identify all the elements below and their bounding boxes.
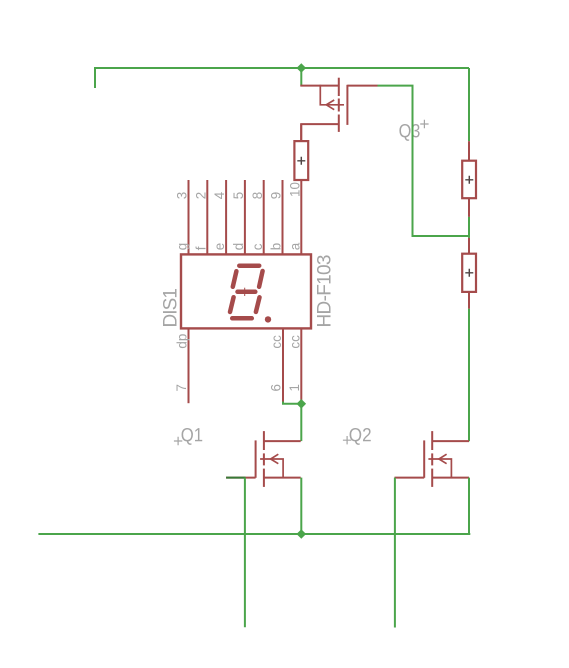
transistor Q2 [395, 431, 470, 487]
wire cc pins to junction [283, 402, 301, 404]
origin cross Q1 [174, 437, 182, 445]
pin 6 wire (cc) [282, 328, 284, 401]
svg-text:a: a [287, 242, 302, 250]
pin 4 wire [225, 180, 227, 254]
wire Q1 gate drop [244, 478, 246, 628]
junction bottom node [297, 529, 307, 539]
svg-text:f: f [193, 246, 208, 250]
svg-text:c: c [250, 243, 265, 250]
wire bottom rail [38, 533, 470, 535]
digit origin tick [244, 288, 246, 296]
svg-text:dp: dp [175, 334, 190, 349]
segment g [238, 290, 256, 295]
svg-text:HD-F103: HD-F103 [315, 255, 336, 328]
pin 1 wire (cc) [300, 328, 302, 402]
wire Q1 source to bottom rail [300, 478, 302, 534]
svg-text:Q2: Q2 [349, 425, 372, 446]
origin cross R3 [465, 269, 473, 277]
resistor R3 (right, lower) [462, 238, 476, 309]
origin cross Q3 [420, 120, 428, 128]
wire Q1 gate stub (overlap) [226, 477, 245, 479]
resistor R1 (below Q3) [294, 124, 308, 180]
origin cross R1 [297, 157, 305, 165]
seven segment digit 8 [230, 266, 263, 319]
svg-text:8: 8 [250, 192, 265, 199]
display DIS1 HD-F103 [181, 180, 311, 403]
segment d [232, 316, 252, 321]
svg-text:Q3: Q3 [399, 121, 421, 142]
pin 9 wire [282, 180, 284, 254]
wire top V+ rail [95, 68, 469, 88]
pin 2 wire [206, 180, 208, 254]
svg-text:Q1: Q1 [181, 425, 203, 446]
svg-text:d: d [231, 243, 246, 250]
origin cross R2 [465, 176, 473, 184]
segment e [230, 297, 234, 312]
pin 7 wire (dp) [188, 328, 190, 403]
wire junction to Q3 source [300, 68, 302, 86]
svg-text:cc: cc [269, 335, 284, 349]
svg-text:10: 10 [287, 182, 302, 197]
pin 8 wire [263, 180, 265, 254]
wire Q3 gate net to mid-resistor node [378, 86, 470, 236]
segment b [259, 271, 263, 287]
transistor Q1 [226, 431, 301, 487]
svg-text:g: g [175, 243, 190, 250]
svg-text:cc: cc [287, 335, 302, 349]
svg-text:6: 6 [269, 384, 284, 391]
svg-text:5: 5 [231, 192, 246, 199]
transistor Q3 [300, 78, 377, 142]
decimal point [265, 316, 271, 322]
origin cross Q2 [343, 436, 351, 444]
segment c [256, 297, 260, 312]
pin 5 wire [244, 180, 246, 254]
wire R3 to Q2 drain [468, 309, 470, 441]
svg-text:9: 9 [269, 192, 284, 199]
svg-text:3: 3 [175, 192, 190, 199]
junction cc node [297, 399, 307, 409]
wire Q2 source to bottom rail [468, 478, 470, 534]
junction top node [297, 63, 307, 73]
pin 3 wire [188, 180, 190, 254]
resistor R2 (top right) [462, 141, 476, 217]
display body box [181, 254, 311, 328]
wire junction to Q1 drain [300, 404, 302, 441]
wire Q2 gate drop [394, 478, 396, 628]
svg-text:e: e [212, 243, 227, 250]
segment f [233, 271, 237, 287]
svg-text:1: 1 [287, 384, 302, 391]
wire V+ right vertical drop to R2 [468, 68, 470, 141]
pin 10 wire [300, 180, 302, 254]
svg-text:2: 2 [193, 192, 208, 199]
svg-text:DIS1: DIS1 [161, 288, 182, 328]
segment a [239, 263, 259, 268]
svg-text:4: 4 [212, 191, 227, 199]
wire between R2 and R3 [468, 217, 470, 238]
svg-text:b: b [269, 243, 284, 250]
svg-text:7: 7 [174, 384, 189, 391]
